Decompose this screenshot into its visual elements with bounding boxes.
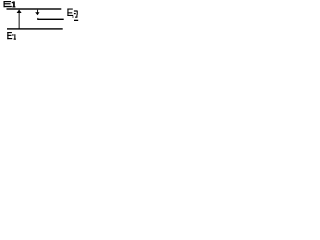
up arrow (absorption) <box>17 10 22 29</box>
energy level line (bottom) <box>7 28 63 29</box>
down arrow (emission) <box>35 10 39 16</box>
label E with descender subscript (right) <box>67 9 78 22</box>
energy level line (middle right) <box>37 19 64 20</box>
label E1 (top left) <box>4 1 16 8</box>
junction bump at middle line left end <box>37 17 38 20</box>
energy level line E1 (top) <box>7 8 62 9</box>
label E1 (bottom left) <box>7 32 16 40</box>
